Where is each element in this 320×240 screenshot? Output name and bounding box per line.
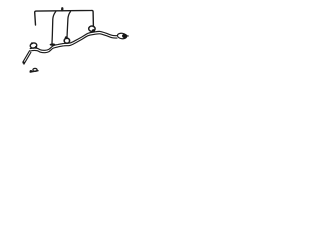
string 2 arrow blob [65,36,68,39]
peg on crossbar [61,8,63,10]
mini scribble blob [30,70,33,73]
rope loop 1 [30,42,37,48]
rope end loop [117,33,127,40]
rope loop 1 upper blob [31,42,33,44]
rope tail upper stroke [23,51,30,63]
string 1 [52,12,56,44]
rope tail tip blob [23,62,25,64]
rope loop 1 crossing blob [35,46,37,48]
rope lower stroke [30,34,117,53]
rope end tip [127,35,129,37]
string 2 [67,12,71,38]
mini scribble loop [33,68,37,71]
string 3 knot blob [92,29,95,32]
rope upper stroke [30,31,117,50]
string 3 end knot loop [89,26,95,31]
mini scribble base stroke [30,71,38,72]
string 1 end knot [50,43,56,45]
rope end arrowhead [122,33,128,38]
rope tail lower stroke [24,52,31,64]
crossbar with left post and right drop [35,10,94,26]
string 2 end loop [64,38,69,43]
